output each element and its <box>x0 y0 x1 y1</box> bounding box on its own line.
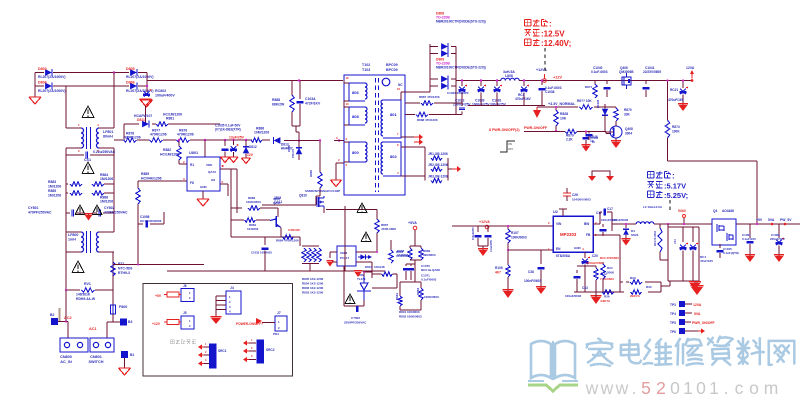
wire <box>577 132 611 134</box>
resistor R31 <box>653 224 662 260</box>
svg-text:+3.3V_NORMAL: +3.3V_NORMAL <box>548 102 576 106</box>
svg-text:0: 0 <box>696 378 706 398</box>
label +12VA <box>479 220 490 224</box>
wire <box>574 258 620 292</box>
svg-text:NTC-5D9: NTC-5D9 <box>118 267 132 271</box>
svg-text:470R/1206: 470R/1206 <box>177 133 194 137</box>
pad B2 <box>50 313 58 325</box>
svg-text:R884 470R/1206: R884 470R/1206 <box>276 239 299 243</box>
connector CN801 <box>89 338 114 364</box>
svg-text:R828: R828 <box>560 112 568 116</box>
jumper JR1-JR3 <box>405 147 448 183</box>
svg-text:T103: T103 <box>362 68 370 72</box>
resistor R36 <box>574 290 614 303</box>
wire <box>292 81 300 96</box>
svg-text:C1038: C1038 <box>545 90 555 94</box>
capacitor C17b <box>596 211 607 236</box>
svg-text:808: 808 <box>352 114 359 119</box>
svg-text:100uF/400V: 100uF/400V <box>155 94 175 98</box>
label red 0.5R <box>288 228 300 232</box>
capacitor C1033 <box>251 237 272 271</box>
svg-text:CY801: CY801 <box>28 206 38 210</box>
capacitor RC802 <box>143 89 175 98</box>
testpoint TP4 <box>670 310 701 316</box>
capacitor C38 <box>524 250 545 288</box>
resistor R883b <box>231 206 278 216</box>
svg-text:VIN: VIN <box>556 222 562 226</box>
svg-text:SSM02N7002BJ/CCC03P: SSM02N7002BJ/CCC03P <box>305 189 340 193</box>
svg-text:JR1 OR-1206: JR1 OR-1206 <box>428 152 448 156</box>
svg-text:o: o <box>749 378 759 398</box>
svg-text:L808: L808 <box>505 74 513 78</box>
transistor Q803 <box>270 216 281 230</box>
wire <box>65 290 67 322</box>
svg-text:R870: R870 <box>624 108 632 112</box>
svg-text:FB: FB <box>586 233 591 237</box>
svg-text:RL207(2A/1000V): RL207(2A/1000V) <box>38 89 66 93</box>
svg-text:C20: C20 <box>592 254 598 258</box>
resistor R874 <box>665 120 680 161</box>
capacitor C33 <box>565 270 588 298</box>
optocoupler U808 <box>337 246 372 266</box>
ground <box>678 104 688 111</box>
svg-text:D803: D803 <box>38 67 47 71</box>
svg-text:C103A: C103A <box>305 97 316 101</box>
capacitor C1070 <box>403 264 440 280</box>
wire <box>138 180 187 182</box>
resistor R886 <box>251 127 269 143</box>
wire <box>231 230 300 237</box>
resistor R867 <box>375 219 396 252</box>
wire <box>66 252 113 302</box>
resistor bank R841-844 <box>302 246 321 271</box>
svg-text:0.1uF/0603: 0.1uF/0603 <box>421 278 437 282</box>
resistor R882 <box>160 140 187 164</box>
svg-text:T102: T102 <box>362 63 370 67</box>
svg-text:0.1uF-0603: 0.1uF-0603 <box>591 70 608 74</box>
svg-text:C33: C33 <box>582 286 588 290</box>
svg-text:1M/1206: 1M/1206 <box>100 200 113 204</box>
svg-text:RC21: RC21 <box>670 88 678 92</box>
svg-text:MBR20100CTP(DIODE(STO-220)): MBR20100CTP(DIODE(STO-220)) <box>436 66 486 70</box>
svg-text:22/25V/0805: 22/25V/0805 <box>643 70 661 74</box>
svg-text:BPC09: BPC09 <box>386 63 398 67</box>
ground <box>745 255 784 262</box>
wire (gray) <box>59 308 61 321</box>
svg-text:C?802: C?802 <box>351 316 360 320</box>
svg-text:D1028: D1028 <box>596 99 600 108</box>
node <box>507 225 509 251</box>
wire <box>262 196 324 213</box>
wire <box>66 73 114 129</box>
diode D803 <box>38 67 66 79</box>
svg-text:0.1uF/16V: 0.1uF/16V <box>742 237 756 241</box>
svg-text:GND: GND <box>200 185 208 189</box>
svg-text:RL207(2A/1000V): RL207(2A/1000V) <box>126 89 154 93</box>
svg-text:RC802: RC802 <box>155 89 166 93</box>
label L2 <box>612 205 663 222</box>
annotation measured-values 12V <box>525 20 572 49</box>
svg-text:100K/0603: 100K/0603 <box>511 235 527 239</box>
ground <box>84 213 92 221</box>
svg-text:2BC7A: 2BC7A <box>630 294 641 298</box>
svg-text:RDH9-3A-W: RDH9-3A-W <box>76 297 96 301</box>
svg-text:16: 16 <box>346 76 350 80</box>
connector CN800 <box>60 338 88 364</box>
node <box>625 223 786 226</box>
diode D809 <box>430 76 456 90</box>
fuse F800 <box>111 302 128 322</box>
IC U2 MP2303 <box>548 210 597 252</box>
resistor R864 <box>377 240 408 263</box>
svg-text:100uF/25V: 100uF/25V <box>471 227 475 240</box>
svg-text:PD4: PD4 <box>273 332 279 336</box>
svg-text:B2: B2 <box>50 313 54 317</box>
svg-text:TL431: TL431 <box>357 277 366 281</box>
svg-text:0.22u/250VAC: 0.22u/250VAC <box>93 150 116 154</box>
thermistor RT1 <box>111 262 133 276</box>
svg-text:CY802: CY802 <box>104 206 114 210</box>
ground <box>503 290 514 298</box>
svg-text:(0?)1K-DB2(X7R): (0?)1K-DB2(X7R) <box>215 128 241 132</box>
ground <box>582 145 591 152</box>
resistor R865 <box>372 272 397 288</box>
diode D808 <box>430 43 456 57</box>
label 6T8 <box>556 254 571 258</box>
ground <box>611 141 621 148</box>
svg-text:F800: F800 <box>119 305 127 309</box>
svg-text:33K: 33K <box>624 112 631 116</box>
transistor Q4 AO4468 <box>712 209 736 245</box>
svg-text:R106: R106 <box>495 266 503 270</box>
svg-text:806: 806 <box>352 90 359 95</box>
primary winding 800 <box>344 137 367 167</box>
wire <box>220 139 292 142</box>
label AC2 <box>64 316 72 320</box>
diode D4 <box>623 224 638 240</box>
node <box>298 139 300 141</box>
testpoint TP6 <box>670 328 705 334</box>
svg-text:CX1: CX1 <box>84 158 91 162</box>
svg-text:J4: J4 <box>230 286 234 290</box>
arrow <box>448 166 461 172</box>
svg-text:R30: R30 <box>646 285 652 289</box>
wire <box>344 266 397 306</box>
svg-text:100K: 100K <box>672 129 680 133</box>
svg-text:+12V: +12V <box>152 322 161 326</box>
wire <box>667 81 669 121</box>
connector J5 <box>152 311 194 329</box>
node <box>137 264 139 266</box>
ground <box>690 286 703 295</box>
svg-text:5VA: 5VA <box>768 218 775 222</box>
ground <box>221 157 230 163</box>
capacitor CX1 <box>66 150 116 162</box>
svg-text:C1033 100-0603: C1033 100-0603 <box>251 251 272 255</box>
svg-text:4K7: 4K7 <box>495 270 501 274</box>
svg-text:RL207(2A/1000V): RL207(2A/1000V) <box>38 75 66 79</box>
wire <box>344 206 346 271</box>
wire <box>124 124 220 140</box>
svg-text::5.25V;: :5.25V; <box>664 191 688 200</box>
wire <box>226 169 231 237</box>
svg-text:R888 470/1206: R888 470/1206 <box>417 118 438 122</box>
ground <box>29 97 41 104</box>
svg-text:100K/0603: 100K/0603 <box>246 200 261 204</box>
node <box>585 130 587 132</box>
ground <box>197 191 209 206</box>
svg-text:C17: C17 <box>607 207 613 211</box>
label red <box>600 256 619 260</box>
transformer core <box>376 78 379 192</box>
svg-text::: : <box>549 20 552 29</box>
svg-text:R887 470/1206: R887 470/1206 <box>419 95 440 99</box>
ground <box>536 287 546 294</box>
svg-text:R862: R862 <box>416 287 420 295</box>
wire <box>508 249 553 251</box>
svg-text:U801: U801 <box>189 151 198 155</box>
resistor R887b <box>419 95 440 105</box>
svg-text:5VA0: 5VA0 <box>678 209 686 213</box>
wire <box>58 322 68 339</box>
svg-text:SRC2: SRC2 <box>266 348 275 352</box>
capacitor C846 <box>583 132 598 147</box>
wire <box>114 139 220 141</box>
label D809 <box>436 58 486 70</box>
dashed lead <box>544 48 546 73</box>
svg-text:TP3: TP3 <box>670 303 676 307</box>
wire <box>537 106 616 108</box>
svg-text:R24: R24 <box>607 266 613 270</box>
annotation measured-values 5V <box>648 172 689 201</box>
svg-text:C38: C38 <box>528 270 534 274</box>
svg-text:1N4148: 1N4148 <box>374 265 385 269</box>
wire <box>456 80 501 82</box>
svg-text:J7: J7 <box>277 311 281 315</box>
ground bus <box>113 265 210 274</box>
svg-text:w: w <box>600 378 614 398</box>
primary winding 808 <box>344 102 367 125</box>
wire <box>397 87 405 100</box>
connector J7 <box>262 311 287 336</box>
svg-text:U808: U808 <box>340 251 348 255</box>
node <box>666 79 684 81</box>
diode D806 <box>126 81 154 93</box>
transistor Q810 <box>274 189 340 208</box>
label +12V <box>553 76 562 80</box>
wire <box>455 54 457 115</box>
label gray CJK <box>170 340 196 344</box>
wire <box>399 300 422 319</box>
wire <box>668 161 758 224</box>
svg-text::12.40V;: :12.40V; <box>541 39 571 48</box>
svg-text:TP5: TP5 <box>670 321 676 325</box>
wire <box>661 281 697 287</box>
svg-text:.: . <box>724 378 729 398</box>
ground <box>326 261 333 267</box>
capacitor C20 <box>582 252 605 292</box>
diode D804 <box>38 81 66 93</box>
svg-text:w: w <box>615 378 629 398</box>
secondary dot <box>382 78 403 87</box>
capacitor C1068 <box>770 224 785 256</box>
svg-text:R885: R885 <box>48 189 56 193</box>
ground <box>622 239 631 246</box>
svg-text:TP4: TP4 <box>670 312 676 316</box>
connector box <box>143 284 293 377</box>
warning triangle <box>72 261 84 272</box>
svg-text:L2 10uH-0.6A: L2 10uH-0.6A <box>643 205 663 209</box>
label R bank <box>302 277 324 295</box>
choke LF800 <box>66 231 114 253</box>
ground <box>242 158 251 164</box>
svg-text:Q408: Q408 <box>625 127 633 131</box>
waveform glyph <box>500 141 515 152</box>
svg-text::12.5V: :12.5V <box>541 30 565 39</box>
arrow bracket <box>588 171 614 181</box>
ground <box>331 180 342 187</box>
svg-text:J6: J6 <box>183 284 187 288</box>
svg-text:m: m <box>764 378 779 398</box>
svg-text:470R-0808: 470R-0808 <box>381 227 396 231</box>
wire <box>107 322 120 338</box>
svg-text:R803 1K2-1206: R803 1K2-1206 <box>302 291 324 295</box>
svg-text:Q4: Q4 <box>713 209 717 213</box>
svg-text:1M/1206: 1M/1206 <box>100 177 113 181</box>
varistor RV1 <box>66 282 113 301</box>
resistor R862 <box>416 287 439 300</box>
capacitor C802 <box>344 306 367 325</box>
svg-text:.: . <box>632 378 637 398</box>
svg-text:R1: R1 <box>190 163 194 167</box>
svg-text:2200PF/250VAC: 2200PF/250VAC <box>344 321 367 325</box>
svg-text:1000uF/0603: 1000uF/0603 <box>586 261 604 265</box>
svg-text:68K/2W: 68K/2W <box>272 102 285 106</box>
label 5VA0 <box>678 209 686 224</box>
wire <box>344 81 349 108</box>
svg-text:390/0603: 390/0603 <box>423 253 436 257</box>
svg-text:HC/04K/1206: HC/04K/1206 <box>141 176 162 180</box>
svg-text:13uF/25V: 13uF/25V <box>229 136 245 140</box>
svg-text:c: c <box>735 378 744 398</box>
svg-text:R804 1K2-1206: R804 1K2-1206 <box>302 282 324 286</box>
svg-text:100K/0603: 100K/0603 <box>424 295 439 299</box>
label +5VA <box>408 221 417 225</box>
svg-text:SS24: SS24 <box>631 233 639 237</box>
svg-text:R883: R883 <box>48 180 56 184</box>
svg-text:OFF: OFF <box>508 147 514 151</box>
resistor R890 <box>309 169 322 188</box>
label R882b <box>246 196 281 205</box>
svg-text:NC0.3a.QA08: NC0.3a.QA08 <box>421 268 440 272</box>
resistor R22 <box>594 266 614 292</box>
resistor R106 <box>495 265 510 291</box>
resistor R883 <box>48 173 114 188</box>
svg-text:470R/1206: 470R/1206 <box>124 136 141 140</box>
inductor L808 <box>501 70 519 81</box>
svg-text:MBR20100CTP(DIODE(STO-220)): MBR20100CTP(DIODE(STO-220)) <box>436 20 486 24</box>
svg-text:JR3 OR-1206: JR3 OR-1206 <box>428 175 448 179</box>
wire <box>66 148 114 252</box>
svg-text:POWER-ON/OFF?: POWER-ON/OFF? <box>236 322 263 326</box>
svg-text:12VA: 12VA <box>686 66 695 70</box>
svg-text:0.1uF/25V: 0.1uF/25V <box>489 240 493 252</box>
resistor R889 <box>136 172 162 206</box>
wire <box>299 237 301 246</box>
svg-text:C44: C44 <box>673 239 677 244</box>
svg-text:220uF/16V: 220uF/16V <box>770 237 785 241</box>
wire <box>452 225 553 227</box>
svg-text:Q810: Q810 <box>299 194 307 198</box>
diode D805 <box>126 67 154 79</box>
capacitor C1041 <box>643 66 662 97</box>
svg-text:D816: D816 <box>365 265 373 269</box>
frame <box>660 224 699 281</box>
svg-text:TP6: TP6 <box>670 330 676 334</box>
svg-text:13: 13 <box>346 102 350 106</box>
warning triangle <box>82 106 94 117</box>
capacitor C1023 <box>447 91 469 110</box>
svg-text:R805 1K2-1206: R805 1K2-1206 <box>302 277 324 281</box>
ground <box>478 249 488 256</box>
svg-text:CN801: CN801 <box>90 355 102 359</box>
svg-text:QA73: QA73 <box>208 170 216 174</box>
svg-text:1mH: 1mH <box>68 238 76 242</box>
watermark url <box>585 378 779 398</box>
arrow pin <box>405 134 423 145</box>
wire <box>35 72 147 74</box>
svg-text:470PF/250VAC: 470PF/250VAC <box>28 210 52 214</box>
transformer T102 outline <box>344 63 405 195</box>
power tap <box>559 209 567 216</box>
resistor R8x 10K <box>577 99 593 109</box>
svg-text:0.1uF(QT8): 0.1uF(QT8) <box>723 251 739 255</box>
svg-text:R8?? 10K: R8?? 10K <box>577 99 592 103</box>
svg-text:472F/1KV: 472F/1KV <box>305 101 321 105</box>
svg-text:PWR_ON/OFF: PWR_ON/OFF <box>692 321 715 325</box>
svg-text:PR107: PR107 <box>291 148 295 158</box>
svg-text:GND: GND <box>574 246 582 250</box>
svg-text:+12V: +12V <box>553 76 562 80</box>
watermark text jia-dian-wei-xiu-zi-liao-wang <box>587 337 795 366</box>
wire <box>519 80 600 82</box>
ground <box>591 292 602 304</box>
resistor R881b <box>231 218 270 231</box>
wire <box>34 73 36 98</box>
svg-text:+5V: +5V <box>155 294 162 298</box>
svg-text:RL207(2A/1000V): RL207(2A/1000V) <box>126 75 154 79</box>
svg-text:2.2K: 2.2K <box>566 138 573 142</box>
svg-text:w: w <box>585 378 599 398</box>
svg-text:VDD: VDD <box>206 163 213 167</box>
arrows SRC1 <box>198 342 209 366</box>
svg-text:BPC09: BPC09 <box>386 68 398 72</box>
watermark ribbon <box>528 381 578 391</box>
svg-text:12V: 12V <box>247 153 254 157</box>
IC U801 <box>183 151 224 191</box>
arrows SRC2 <box>243 338 256 362</box>
svg-text:BW: BW <box>584 222 589 226</box>
wire <box>204 140 206 157</box>
svg-text:470R/1206: 470R/1206 <box>150 133 167 137</box>
svg-text:R882: R882 <box>163 148 171 152</box>
choke LF801 <box>66 123 114 153</box>
wire <box>654 223 800 225</box>
testpoint TP5 <box>670 319 715 325</box>
divider loop <box>620 276 661 298</box>
wire <box>400 282 421 296</box>
wire <box>147 80 343 82</box>
